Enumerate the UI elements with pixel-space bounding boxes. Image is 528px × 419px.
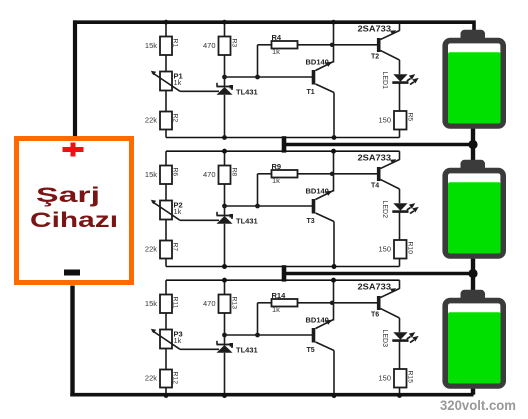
svg-text:R9: R9 bbox=[272, 162, 282, 171]
svg-text:T4: T4 bbox=[371, 183, 379, 190]
svg-text:R4: R4 bbox=[272, 33, 282, 42]
svg-text:15k: 15k bbox=[145, 41, 157, 50]
svg-text:Şarj: Şarj bbox=[36, 184, 100, 207]
svg-text:R6: R6 bbox=[172, 168, 179, 177]
svg-text:T3: T3 bbox=[307, 218, 315, 225]
svg-text:2SA733: 2SA733 bbox=[358, 154, 392, 163]
svg-text:BD140: BD140 bbox=[306, 187, 329, 196]
svg-text:150: 150 bbox=[378, 245, 391, 254]
svg-text:470: 470 bbox=[203, 170, 216, 179]
svg-text:BD140: BD140 bbox=[306, 58, 329, 67]
svg-text:1k: 1k bbox=[272, 47, 280, 56]
svg-text:150: 150 bbox=[378, 374, 391, 383]
svg-text:470: 470 bbox=[203, 299, 216, 308]
svg-text:P3: P3 bbox=[174, 330, 183, 339]
svg-text:R14: R14 bbox=[272, 291, 287, 300]
svg-text:TL431: TL431 bbox=[236, 346, 258, 355]
svg-text:2SA733: 2SA733 bbox=[358, 25, 392, 34]
svg-text:1k: 1k bbox=[272, 176, 280, 185]
svg-text:LED1: LED1 bbox=[381, 72, 388, 90]
svg-text:P2: P2 bbox=[174, 201, 183, 210]
svg-text:R7: R7 bbox=[172, 243, 179, 252]
svg-text:Cihazı: Cihazı bbox=[30, 209, 118, 232]
svg-text:LED2: LED2 bbox=[381, 201, 388, 219]
svg-text:R15: R15 bbox=[407, 371, 414, 384]
svg-text:TL431: TL431 bbox=[236, 217, 258, 226]
svg-text:R10: R10 bbox=[407, 242, 414, 255]
svg-text:R2: R2 bbox=[172, 114, 179, 123]
svg-text:15k: 15k bbox=[145, 299, 157, 308]
svg-text:T6: T6 bbox=[371, 312, 379, 319]
svg-text:22k: 22k bbox=[145, 374, 157, 383]
svg-text:R11: R11 bbox=[172, 297, 179, 309]
svg-text:320volt.com: 320volt.com bbox=[440, 397, 516, 413]
svg-text:TL431: TL431 bbox=[236, 88, 258, 97]
svg-text:470: 470 bbox=[203, 41, 216, 50]
svg-text:LED3: LED3 bbox=[381, 330, 388, 348]
svg-text:R12: R12 bbox=[172, 372, 179, 385]
svg-text:R5: R5 bbox=[407, 113, 414, 122]
svg-text:R1: R1 bbox=[172, 39, 179, 48]
svg-text:T2: T2 bbox=[371, 54, 379, 61]
svg-text:R3: R3 bbox=[231, 39, 238, 48]
svg-text:150: 150 bbox=[378, 116, 391, 125]
svg-text:T1: T1 bbox=[307, 89, 315, 96]
svg-text:2SA733: 2SA733 bbox=[358, 283, 392, 292]
svg-text:1k: 1k bbox=[272, 305, 280, 314]
svg-text:BD140: BD140 bbox=[306, 316, 329, 325]
svg-text:T5: T5 bbox=[307, 347, 315, 354]
svg-text:R13: R13 bbox=[231, 297, 238, 310]
svg-text:R8: R8 bbox=[231, 168, 238, 177]
svg-text:22k: 22k bbox=[145, 116, 157, 125]
svg-text:P1: P1 bbox=[174, 72, 183, 81]
svg-text:15k: 15k bbox=[145, 170, 157, 179]
svg-text:22k: 22k bbox=[145, 245, 157, 254]
